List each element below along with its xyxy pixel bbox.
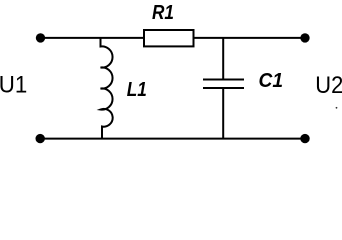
wire bottom rail (40, 138, 305, 140)
speck artifact (336, 107, 338, 109)
capacitor C1 top lead wire (222, 38, 224, 79)
resistor R1 (144, 30, 194, 46)
capacitor C1 bottom lead wire (222, 89, 224, 139)
wire top rail right segment (194, 37, 306, 39)
svg-text:R1: R1 (152, 1, 174, 24)
svg-text:U1: U1 (0, 72, 27, 99)
svg-text:C1: C1 (259, 69, 284, 92)
capacitor C1 plates (203, 80, 244, 89)
svg-text:L1: L1 (127, 78, 147, 101)
node U2- (bottom-right terminal dot) (300, 134, 309, 143)
svg-text:U2: U2 (315, 72, 342, 99)
node U2+ (top-right terminal dot) (300, 33, 309, 42)
inductor L1 (101, 38, 113, 139)
node U1- (bottom-left terminal dot) (36, 134, 45, 143)
wire top rail left segment (41, 37, 145, 39)
node U1+ (top-left terminal dot) (36, 33, 45, 42)
